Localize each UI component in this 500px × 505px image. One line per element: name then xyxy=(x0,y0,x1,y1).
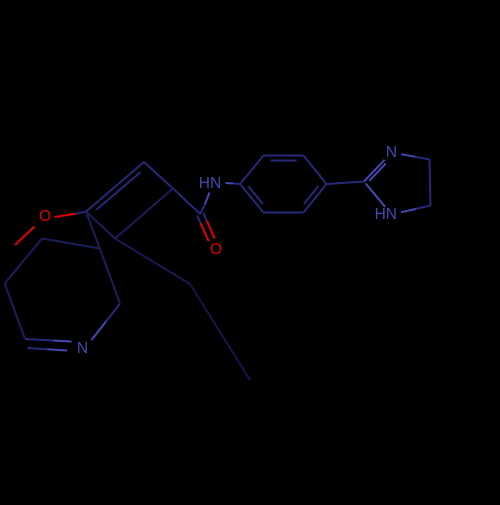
svg-text:O: O xyxy=(39,208,51,225)
svg-text:N: N xyxy=(386,144,397,161)
svg-text:N: N xyxy=(77,340,88,357)
svg-text:HN: HN xyxy=(199,175,221,192)
svg-text:O: O xyxy=(210,241,222,258)
svg-text:HN: HN xyxy=(375,206,397,223)
